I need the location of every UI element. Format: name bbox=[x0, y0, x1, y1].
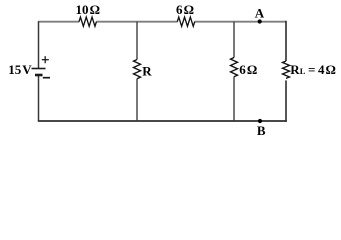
svg-text:6 Ω: 6 Ω bbox=[239, 62, 257, 77]
resistor RL zigzag bbox=[283, 61, 290, 78]
wire right branch lower bbox=[285, 80, 287, 121]
wire right branch upper bbox=[285, 21, 287, 61]
wire top horizontal left bbox=[38, 21, 79, 23]
wire middle branch upper bbox=[136, 22, 138, 60]
wire top-left vertical bbox=[38, 21, 40, 68]
resistor R zigzag bbox=[134, 60, 141, 79]
wire bottom bbox=[38, 120, 287, 122]
resistor R-10ohm zigzag bbox=[79, 17, 96, 26]
svg-text:15 V: 15 V bbox=[8, 62, 32, 77]
wire 6ohm branch upper bbox=[233, 22, 235, 58]
svg-text:A: A bbox=[255, 6, 265, 21]
svg-text:6 Ω: 6 Ω bbox=[176, 2, 194, 17]
battery V1 plates bbox=[32, 69, 46, 76]
svg-text:RL = 4 Ω: RL = 4 Ω bbox=[290, 62, 336, 77]
node A dot bbox=[258, 19, 262, 23]
svg-text:B: B bbox=[257, 123, 266, 138]
svg-text:10 Ω: 10 Ω bbox=[76, 2, 101, 17]
node B dot bbox=[258, 119, 262, 123]
resistor R-6ohm-vert zigzag bbox=[231, 58, 238, 77]
battery minus sign bbox=[43, 77, 50, 79]
resistor R-6ohm-top zigzag bbox=[177, 17, 194, 26]
svg-text:R: R bbox=[142, 64, 152, 79]
wire middle branch lower bbox=[136, 79, 138, 121]
wire left branch lower bbox=[38, 75, 40, 121]
battery plus sign bbox=[42, 56, 49, 63]
wire top horizontal right bbox=[194, 21, 286, 23]
wire top horizontal middle bbox=[96, 21, 178, 23]
wire 6ohm branch lower bbox=[233, 77, 235, 121]
